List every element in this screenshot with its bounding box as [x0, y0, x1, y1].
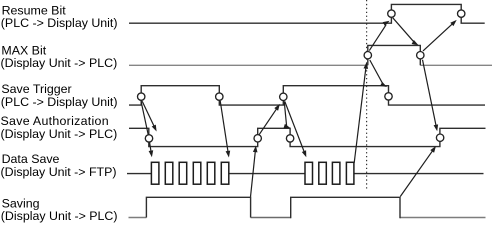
wire MAX Bit low left (gray) [129, 64, 368, 66]
wire Save Authorization trace [129, 128, 486, 146]
arrow MAX circle M1 to trigger falling corner [370, 60, 384, 85]
wire MAX Bit pulse [368, 45, 421, 65]
data save pulse 6 of burst 1 [221, 162, 229, 184]
arrow auth circle to data save burst1 start [150, 143, 152, 154]
node save authorization ON transition 2 [254, 135, 261, 142]
arrow MAX circle M1 to resume rising edge [369, 25, 386, 51]
svg-text:(Display Unit -> PLC): (Display Unit -> PLC) [1, 209, 118, 223]
node save authorization OFF transition 1 [145, 135, 152, 142]
data save pulse 4 of burst 2 [346, 162, 354, 184]
label Resume Bit [1, 4, 118, 31]
label Save Authorization [1, 114, 118, 141]
arrow trigger T3 to data save burst2 start [285, 102, 305, 154]
arrow saving fall2 to auth rising circle A3 [400, 149, 433, 196]
node save trigger ON transition 1 [138, 93, 145, 100]
label Saving [1, 196, 118, 223]
data save pulse 3 of burst 1 [179, 162, 187, 184]
arrows [141, 18, 457, 197]
data save pulse 5 of burst 1 [207, 162, 215, 184]
node MAX bit ON transition [364, 52, 371, 59]
wire Saving low mid (gray) [251, 217, 291, 219]
dotted timing reference line [366, 0, 368, 190]
arrow trigger T1 to auth falling edge [142, 101, 155, 128]
wire Saving low left (gray) [129, 217, 147, 219]
label Save Trigger [1, 82, 118, 109]
node save authorization OFF transition 2 [286, 135, 293, 142]
node resume bit ON transition [388, 10, 395, 17]
data save pulse 2 of burst 2 [319, 162, 327, 184]
data save pulse 1 of burst 1 [151, 162, 159, 184]
svg-text:(PLC -> Display Unit): (PLC -> Display Unit) [1, 95, 118, 109]
label Data Save [1, 152, 117, 179]
wire Data Save baseline segments [127, 173, 484, 175]
node save trigger ON transition 2 [280, 93, 287, 100]
wire MAX Bit low right (gray) [420, 64, 492, 66]
line trigger T1 to auth circle [141, 101, 148, 135]
arrow auth rising circle to trigger T3 [259, 107, 277, 134]
svg-text:(Display Unit -> FTP): (Display Unit -> FTP) [1, 165, 117, 179]
arrow trigger T2 to data save burst1 end [220, 101, 228, 154]
arrow saving fall1 to auth rising circle [251, 150, 256, 197]
arrow trigger T3 to auth falling corner [284, 101, 287, 127]
arrow MAX circle M2 to auth rising corner [423, 60, 437, 128]
node MAX bit OFF transition [417, 52, 424, 59]
arrow resume circle R1 to MAX falling corner [393, 18, 415, 44]
node save trigger OFF transition 1 [216, 93, 223, 100]
svg-text:Save Trigger: Save Trigger [1, 82, 71, 96]
wire Saving trace [146, 197, 400, 219]
node save trigger OFF transition 2 [385, 93, 392, 100]
wire Resume Bit trace [129, 4, 485, 23]
data save pulse 2 of burst 1 [165, 162, 173, 184]
data save pulse 3 of burst 2 [332, 162, 340, 184]
svg-text:(Display Unit -> PLC): (Display Unit -> PLC) [1, 56, 118, 70]
node save authorization ON transition 3 [436, 134, 443, 141]
node resume bit OFF transition [458, 10, 465, 17]
wire Saving low right (gray) [400, 217, 486, 219]
data save pulse 4 of burst 1 [193, 162, 201, 184]
arrow data save burst2 end to MAX rising circle [354, 66, 366, 163]
data save pulse 1 of burst 2 [305, 162, 313, 184]
arrow MAX circle M2 to resume circle R2 [423, 23, 454, 51]
wire Save Trigger trace [129, 86, 485, 105]
svg-text:(Display Unit -> PLC): (Display Unit -> PLC) [1, 127, 118, 141]
label MAX Bit [1, 43, 118, 70]
svg-text:(PLC -> Display Unit): (PLC -> Display Unit) [1, 16, 118, 30]
